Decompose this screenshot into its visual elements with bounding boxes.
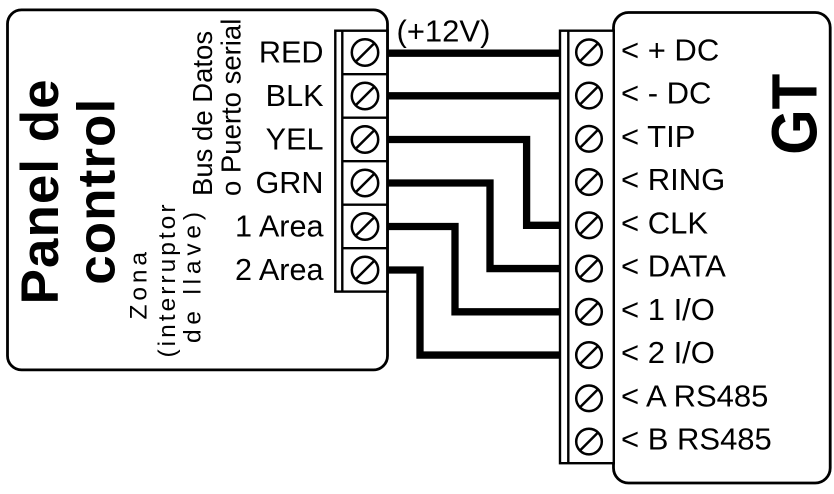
svg-text:de llave): de llave) bbox=[180, 212, 207, 343]
svg-text:BLK: BLK bbox=[266, 79, 324, 113]
screw terminal YEL bbox=[352, 126, 378, 152]
svg-text:< DATA: < DATA bbox=[621, 249, 726, 284]
svg-text:Bus de Datos: Bus de Datos bbox=[187, 31, 218, 196]
screw terminal B RS485 bbox=[576, 429, 602, 455]
label < CLK bbox=[621, 205, 708, 240]
svg-text:Panel de: Panel de bbox=[11, 79, 70, 304]
screw terminal TIP bbox=[576, 126, 602, 152]
label: GT bbox=[759, 74, 831, 155]
screw terminal DATA bbox=[576, 256, 602, 282]
label < RING bbox=[621, 162, 725, 197]
svg-text:< CLK: < CLK bbox=[621, 205, 708, 240]
label: Panel de control bbox=[11, 79, 127, 304]
label (+12V) bbox=[397, 14, 491, 49]
terminal block TB2 (GT side) bbox=[560, 31, 614, 464]
svg-text:(+12V): (+12V) bbox=[397, 14, 491, 49]
screw terminal BLK bbox=[352, 83, 378, 109]
screw terminal -DC bbox=[576, 83, 602, 109]
label: Zona (interruptor de llave) bbox=[126, 205, 207, 358]
screw terminal 2 Area bbox=[352, 257, 378, 283]
screw terminal RED bbox=[352, 39, 378, 65]
svg-text:YEL: YEL bbox=[266, 123, 324, 157]
svg-text:2 Area: 2 Area bbox=[235, 253, 324, 287]
label YEL bbox=[266, 123, 324, 157]
screw terminal +DC bbox=[576, 40, 602, 66]
svg-text:RED: RED bbox=[259, 36, 324, 70]
label 1 Area bbox=[235, 210, 324, 244]
svg-text:< RING: < RING bbox=[621, 162, 725, 197]
svg-text:1 Area: 1 Area bbox=[235, 210, 324, 244]
label < B RS485 bbox=[621, 422, 772, 457]
svg-text:< A RS485: < A RS485 bbox=[621, 378, 768, 413]
label RED bbox=[259, 36, 324, 70]
svg-text:< + DC: < + DC bbox=[621, 32, 719, 67]
label < TIP bbox=[621, 119, 695, 154]
label < + DC bbox=[621, 32, 719, 67]
screw terminal RING bbox=[576, 169, 602, 195]
wire RED to +DC bbox=[388, 50, 560, 57]
wire GRN to DATA bbox=[388, 183, 560, 269]
svg-text:control: control bbox=[68, 99, 127, 285]
screw terminal A RS485 bbox=[576, 386, 602, 412]
wire YEL to CLK bbox=[388, 140, 560, 226]
svg-text:< 2 I/O: < 2 I/O bbox=[621, 335, 715, 370]
svg-text:< B RS485: < B RS485 bbox=[621, 422, 772, 457]
screw terminal 1 I/O bbox=[576, 299, 602, 325]
svg-text:< TIP: < TIP bbox=[621, 119, 695, 154]
label BLK bbox=[266, 79, 324, 113]
label < A RS485 bbox=[621, 378, 768, 413]
screw terminal GRN bbox=[352, 170, 378, 196]
screw terminal 1 Area bbox=[352, 213, 378, 239]
wire 2 Area to 2 I/O bbox=[388, 270, 560, 355]
label: Bus de Datos o Puerto serial bbox=[187, 19, 247, 196]
svg-text:< - DC: < - DC bbox=[621, 76, 711, 111]
label GRN bbox=[256, 166, 324, 200]
svg-text:o Puerto serial: o Puerto serial bbox=[216, 19, 247, 196]
terminal block TB1 (panel side) bbox=[335, 31, 387, 292]
label < 2 I/O bbox=[621, 335, 715, 370]
screw terminal CLK bbox=[576, 213, 602, 239]
wire BLK to -DC bbox=[388, 92, 560, 99]
control panel box bbox=[8, 10, 388, 370]
wire 1 Area to 1 I/O bbox=[388, 227, 560, 312]
svg-text:< 1 I/O: < 1 I/O bbox=[621, 292, 715, 327]
svg-text:Zona: Zona bbox=[126, 252, 153, 320]
GT module box bbox=[614, 13, 831, 484]
svg-text:(interruptor: (interruptor bbox=[154, 205, 181, 358]
screw terminal 2 I/O bbox=[576, 342, 602, 368]
label 2 Area bbox=[235, 253, 324, 287]
label < DATA bbox=[621, 249, 726, 284]
svg-text:GT: GT bbox=[759, 74, 831, 155]
label < - DC bbox=[621, 76, 711, 111]
svg-text:GRN: GRN bbox=[256, 166, 324, 200]
label < 1 I/O bbox=[621, 292, 715, 327]
